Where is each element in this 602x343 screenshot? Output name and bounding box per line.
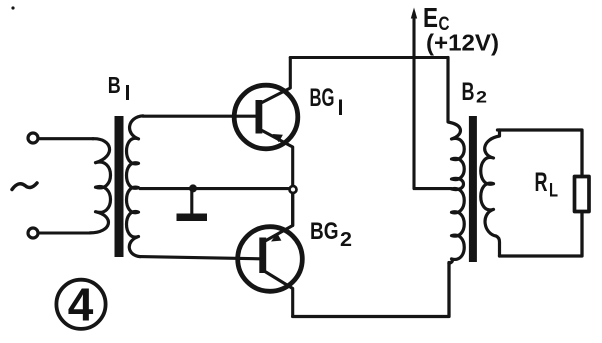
label +12V <box>426 30 499 56</box>
svg-text:E: E <box>423 2 438 33</box>
transistor BG2 <box>238 193 303 317</box>
wire load bottom <box>500 212 583 257</box>
svg-text:B: B <box>108 72 121 98</box>
svg-text:(+12V): (+12V) <box>426 30 499 56</box>
wire top rail <box>290 56 448 59</box>
transformer B2 core <box>469 116 477 262</box>
svg-text:B: B <box>462 78 475 106</box>
label BG1 <box>310 84 343 115</box>
wire BG2 base <box>140 257 260 259</box>
AC source symbol ~ <box>12 183 37 190</box>
power Ec supply line <box>411 8 452 189</box>
svg-text:L: L <box>549 181 558 202</box>
svg-text:R: R <box>535 167 548 197</box>
transformer B2 primary winding <box>448 58 464 264</box>
wire input top <box>39 137 93 140</box>
node emitter junction <box>290 186 297 193</box>
svg-text:BG: BG <box>310 218 339 245</box>
transformer B1 secondary winding <box>127 116 144 257</box>
wire bottom rail <box>293 263 449 317</box>
svg-text:2: 2 <box>476 89 487 107</box>
transformer B1 primary winding <box>90 139 111 233</box>
wire center tap to emitter node <box>140 187 288 190</box>
label RL <box>535 167 559 202</box>
wire load top <box>498 130 583 177</box>
ground <box>177 192 208 221</box>
wire input bottom <box>39 231 90 234</box>
svg-text:4: 4 <box>68 279 94 331</box>
svg-text:2: 2 <box>340 229 352 251</box>
transformer B2 secondary winding <box>481 130 500 256</box>
input terminal bottom <box>28 228 38 238</box>
resistor RL <box>575 177 590 212</box>
label Ec <box>423 2 450 35</box>
wire BG1 base <box>143 115 256 118</box>
label BG2 <box>310 218 352 251</box>
transistor BG1 <box>234 58 298 186</box>
figure number 4 <box>56 279 105 331</box>
junction dot center tap <box>189 184 197 192</box>
input terminal top <box>28 133 38 143</box>
label B1 <box>108 72 129 100</box>
svg-text:BG: BG <box>310 84 335 112</box>
transformer B1 core <box>115 116 124 257</box>
wire emitter junction to BG2 <box>291 193 294 226</box>
label B2 <box>462 78 488 107</box>
